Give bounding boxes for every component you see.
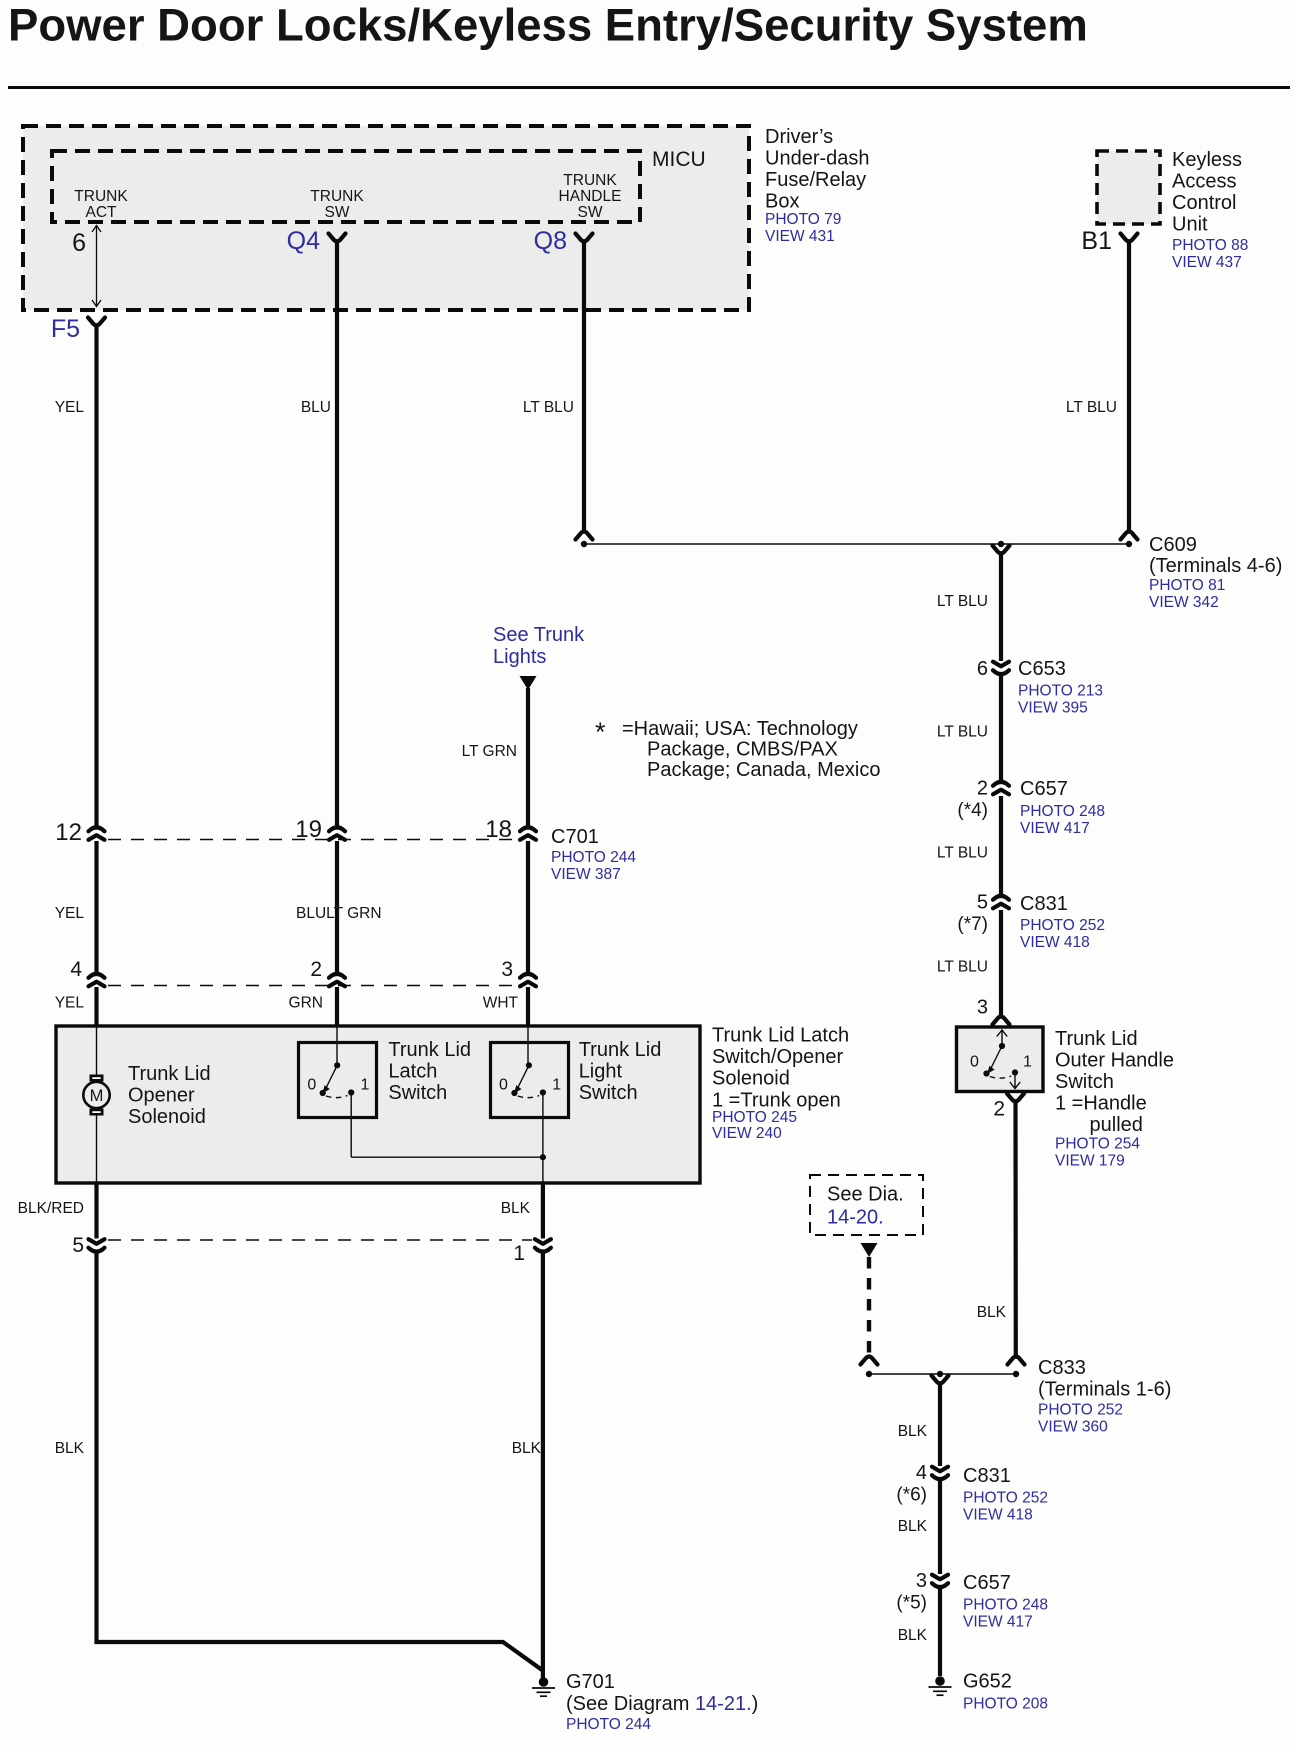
svg-text:(*5): (*5) — [896, 1593, 927, 1614]
row2 connector dashed line — [108, 985, 518, 987]
svg-text:4: 4 — [916, 1462, 927, 1484]
motor M trunk lid opener solenoid — [83, 1026, 210, 1183]
svg-text:Driver’s: Driver’s — [765, 126, 833, 148]
svg-text:Package, CMBS/PAX: Package, CMBS/PAX — [647, 739, 838, 761]
connector C701 dashed line — [108, 839, 518, 841]
svg-text:LT BLU: LT BLU — [937, 959, 988, 976]
svg-text:5: 5 — [977, 892, 988, 914]
svg-text:Under-dash: Under-dash — [765, 148, 870, 170]
svg-text:PHOTO 208: PHOTO 208 — [963, 1696, 1048, 1713]
svg-text:Switch/Opener: Switch/Opener — [712, 1046, 844, 1068]
svg-text:C831: C831 — [1020, 893, 1068, 915]
svg-text:HANDLE: HANDLE — [559, 188, 622, 205]
svg-text:Trunk Lid: Trunk Lid — [388, 1039, 471, 1061]
svg-text:PHOTO 252: PHOTO 252 — [963, 1490, 1048, 1507]
svg-text:(*7): (*7) — [957, 914, 988, 935]
wire BLK C833 to ground G652 — [898, 1383, 940, 1676]
terminal Q8 — [534, 227, 593, 255]
svg-text:VIEW 240: VIEW 240 — [712, 1125, 782, 1142]
svg-text:2: 2 — [977, 778, 988, 800]
svg-text:Unit: Unit — [1172, 214, 1208, 236]
svg-text:4: 4 — [70, 958, 82, 981]
pin TRUNK SW label — [310, 188, 364, 221]
svg-text:Switch: Switch — [388, 1082, 447, 1104]
svg-text:2: 2 — [993, 1098, 1005, 1121]
svg-text:5: 5 — [72, 1234, 84, 1257]
row2 connector pin 3 — [501, 958, 536, 986]
connector C653 label — [1018, 658, 1103, 717]
svg-text:(Terminals 1-6): (Terminals 1-6) — [1038, 1379, 1171, 1401]
node C609 horizontal wire — [584, 541, 1129, 547]
trunk lid outer handle switch box — [957, 1027, 1044, 1092]
svg-text:VIEW 431: VIEW 431 — [765, 228, 835, 245]
svg-text:0: 0 — [307, 1077, 316, 1094]
svg-text:(See Diagram 14-21.): (See Diagram 14-21.) — [566, 1693, 758, 1715]
svg-text:3: 3 — [916, 1570, 927, 1592]
wire W2 BLU Q4 to latch switch — [289, 241, 382, 1026]
svg-text:BLU: BLU — [301, 399, 331, 416]
svg-text:=Hawaii; USA: Technology: =Hawaii; USA: Technology — [622, 718, 858, 740]
Driver's Under-dash Fuse/Relay Box label — [765, 126, 870, 245]
connector C701 pin 19 — [295, 816, 345, 843]
svg-text:Control: Control — [1172, 192, 1236, 214]
MICU outer dashed fuse box — [23, 126, 749, 310]
svg-text:0: 0 — [499, 1077, 508, 1094]
svg-text:19: 19 — [295, 816, 322, 843]
svg-text:Access: Access — [1172, 171, 1236, 193]
svg-text:LT BLU: LT BLU — [937, 593, 988, 610]
svg-text:6: 6 — [977, 658, 988, 680]
pin TRUNK HANDLE SW label — [559, 172, 622, 221]
terminal B1 — [1081, 227, 1137, 255]
svg-text:Trunk Lid: Trunk Lid — [1055, 1028, 1138, 1050]
wire W5 LT GRN trunk lights to light switch — [462, 688, 528, 1026]
ground G652 — [929, 1671, 1049, 1713]
svg-text:Box: Box — [765, 191, 799, 213]
internal wire light 1 down — [542, 1093, 544, 1184]
connector C657 pin 2 — [957, 778, 1009, 822]
svg-text:LT BLU: LT BLU — [523, 399, 574, 416]
svg-text:(*4): (*4) — [957, 800, 988, 821]
svg-text:6: 6 — [72, 229, 86, 257]
svg-text:LT BLU: LT BLU — [1066, 399, 1117, 416]
svg-text:VIEW 417: VIEW 417 — [1020, 820, 1090, 837]
svg-text:See Dia.: See Dia. — [827, 1184, 904, 1206]
label trunk lid outer handle switch — [1055, 1028, 1174, 1170]
svg-text:(Terminals 4-6): (Terminals 4-6) — [1149, 555, 1282, 577]
svg-text:0: 0 — [970, 1054, 979, 1071]
MICU inner dashed box — [52, 148, 706, 222]
row2 connector pin 2 — [310, 958, 345, 986]
wire light BLK to ground — [512, 1253, 543, 1679]
svg-text:F5: F5 — [51, 315, 80, 343]
connector C831 label — [1020, 893, 1105, 951]
svg-text:TRUNK: TRUNK — [563, 172, 617, 189]
connector pin 5 — [72, 1234, 104, 1257]
dashed wire from See Dia arrow — [861, 1243, 878, 1355]
node C833 horizontal wire — [869, 1371, 1016, 1377]
svg-text:PHOTO 248: PHOTO 248 — [963, 1597, 1048, 1614]
See Trunk Lights reference — [493, 624, 585, 690]
trunk lid latch switch — [299, 1026, 472, 1118]
svg-text:YEL: YEL — [55, 995, 85, 1012]
Keyless Access Control Unit dashed box — [1097, 151, 1160, 224]
svg-text:1: 1 — [552, 1077, 561, 1094]
connector C657 label — [1020, 778, 1105, 837]
svg-text:LT GRN: LT GRN — [462, 743, 517, 760]
label trunk lid latch switch/opener solenoid — [712, 1025, 849, 1143]
svg-text:LT BLU: LT BLU — [937, 724, 988, 741]
junction cup below C833 — [932, 1376, 949, 1384]
svg-text:MICU: MICU — [652, 148, 706, 171]
svg-text:Fuse/Relay: Fuse/Relay — [765, 169, 866, 191]
terminal Q4 — [287, 227, 346, 255]
svg-text:VIEW 387: VIEW 387 — [551, 866, 621, 883]
svg-text:YEL: YEL — [55, 905, 85, 922]
svg-text:(*6): (*6) — [896, 1485, 927, 1506]
svg-text:PHOTO 252: PHOTO 252 — [1020, 917, 1105, 934]
svg-text:SW: SW — [325, 204, 350, 221]
svg-text:Solenoid: Solenoid — [712, 1068, 790, 1090]
svg-text:BLK: BLK — [977, 1304, 1007, 1321]
svg-text:PHOTO 252: PHOTO 252 — [1038, 1402, 1123, 1419]
wire W1 YEL F5 to solenoid box — [55, 325, 97, 1026]
svg-text:C657: C657 — [1020, 778, 1068, 800]
svg-text:PHOTO 244: PHOTO 244 — [551, 849, 636, 866]
svg-text:BLK: BLK — [512, 1440, 542, 1457]
svg-text:VIEW 417: VIEW 417 — [963, 1614, 1033, 1631]
wire end flare W4 — [1121, 532, 1138, 548]
svg-text:Opener: Opener — [128, 1085, 195, 1107]
svg-text:BLK: BLK — [898, 1627, 928, 1644]
svg-text:2: 2 — [310, 958, 322, 981]
svg-text:*: * — [595, 717, 606, 747]
wire BLK handle switch to C833 — [977, 1101, 1016, 1355]
connector C833 label — [1038, 1357, 1171, 1436]
svg-text:14-20.: 14-20. — [827, 1207, 884, 1229]
connector C831 pin 5 — [957, 892, 1009, 936]
svg-text:Switch: Switch — [1055, 1071, 1114, 1093]
connector C657 lower label — [963, 1572, 1048, 1631]
connector C831 lower label — [963, 1465, 1048, 1524]
svg-text:PHOTO 248: PHOTO 248 — [1020, 803, 1105, 820]
svg-text:1: 1 — [513, 1242, 525, 1265]
svg-text:3: 3 — [977, 997, 988, 1019]
connector pin 1 — [513, 1239, 551, 1265]
wire W3 LT BLU Q8 to junction line — [523, 241, 584, 530]
connector C831 pin 4 — [896, 1462, 948, 1506]
connector C701 pin 12 — [55, 819, 104, 846]
svg-text:YEL: YEL — [55, 399, 85, 416]
svg-text:Trunk Lid: Trunk Lid — [128, 1063, 211, 1085]
svg-text:G652: G652 — [963, 1671, 1012, 1693]
svg-text:PHOTO 88: PHOTO 88 — [1172, 237, 1248, 254]
wire end flare C833 right — [1008, 1357, 1025, 1378]
svg-text:See Trunk: See Trunk — [493, 624, 585, 646]
svg-text:Lights: Lights — [493, 646, 546, 668]
svg-text:VIEW 360: VIEW 360 — [1038, 1419, 1108, 1436]
svg-text:Q4: Q4 — [287, 227, 320, 255]
svg-text:12: 12 — [55, 819, 82, 846]
pin 6 internal arrow — [72, 225, 101, 307]
svg-text:C831: C831 — [963, 1465, 1011, 1487]
wire W1 BLK to ground — [55, 1253, 544, 1672]
title — [8, 0, 1290, 89]
svg-text:VIEW 418: VIEW 418 — [963, 1507, 1033, 1524]
svg-text:PHOTO 213: PHOTO 213 — [1018, 683, 1103, 700]
svg-text:VIEW 395: VIEW 395 — [1018, 700, 1088, 717]
svg-text:Light: Light — [579, 1061, 623, 1083]
svg-text:pulled: pulled — [1090, 1114, 1143, 1136]
svg-text:1: 1 — [361, 1077, 370, 1094]
svg-text:Switch: Switch — [579, 1082, 638, 1104]
terminal F5 — [51, 315, 105, 343]
svg-text:BLK: BLK — [55, 1440, 85, 1457]
wire end flare W3 — [576, 532, 593, 548]
svg-text:BLK: BLK — [898, 1423, 928, 1440]
svg-text:BLULT GRN: BLULT GRN — [296, 905, 382, 922]
svg-text:PHOTO 245: PHOTO 245 — [712, 1109, 797, 1126]
connector C609 label — [1149, 534, 1282, 611]
connector C701 pin 18 — [485, 816, 536, 843]
internal wire latch 1 to light wire — [351, 1093, 546, 1161]
svg-text:VIEW 179: VIEW 179 — [1055, 1153, 1125, 1170]
svg-text:M: M — [90, 1087, 104, 1105]
svg-text:PHOTO 81: PHOTO 81 — [1149, 577, 1225, 594]
bottom connector dashed line — [108, 1239, 532, 1241]
svg-text:B1: B1 — [1081, 227, 1112, 255]
wire W6 LT BLU right column — [937, 553, 1001, 1015]
svg-text:VIEW 418: VIEW 418 — [1020, 934, 1090, 951]
svg-text:Outer Handle: Outer Handle — [1055, 1050, 1174, 1072]
svg-text:3: 3 — [501, 958, 513, 981]
node junction cup right column — [993, 546, 1010, 554]
svg-text:C657: C657 — [963, 1572, 1011, 1594]
svg-text:1 =Handle: 1 =Handle — [1055, 1093, 1147, 1115]
svg-text:C701: C701 — [551, 826, 599, 848]
svg-text:PHOTO 244: PHOTO 244 — [566, 1716, 651, 1733]
svg-text:PHOTO 254: PHOTO 254 — [1055, 1136, 1140, 1153]
svg-text:WHT: WHT — [483, 995, 519, 1012]
svg-text:Solenoid: Solenoid — [128, 1106, 206, 1128]
svg-text:Latch: Latch — [388, 1061, 437, 1083]
row2 connector pin 4 — [70, 958, 104, 986]
solenoid/switch assembly box — [56, 1026, 700, 1183]
pin TRUNK ACT label — [74, 188, 128, 221]
svg-text:GRN: GRN — [289, 995, 323, 1012]
svg-text:LT BLU: LT BLU — [937, 845, 988, 862]
terminal 2 cup below handle switch — [993, 1094, 1024, 1121]
svg-text:BLK: BLK — [898, 1518, 928, 1535]
wire end flare C833 left — [861, 1357, 878, 1378]
svg-text:Keyless: Keyless — [1172, 149, 1242, 171]
svg-text:TRUNK: TRUNK — [310, 188, 364, 205]
svg-text:C609: C609 — [1149, 534, 1197, 556]
svg-text:BLK/RED: BLK/RED — [18, 1200, 84, 1217]
svg-text:Package; Canada, Mexico: Package; Canada, Mexico — [647, 759, 880, 781]
connector C653 pin 6 — [977, 658, 1009, 680]
svg-text:C833: C833 — [1038, 1357, 1086, 1379]
svg-text:TRUNK: TRUNK — [74, 188, 128, 205]
ground G701 — [532, 1671, 758, 1733]
svg-text:VIEW 437: VIEW 437 — [1172, 254, 1242, 271]
connector C657 pin 3 — [896, 1570, 948, 1614]
svg-text:C653: C653 — [1018, 658, 1066, 680]
svg-text:BLK: BLK — [501, 1200, 531, 1217]
svg-text:VIEW 342: VIEW 342 — [1149, 594, 1219, 611]
wire W4 LT BLU B1 down — [1066, 241, 1129, 530]
Keyless Access Control Unit label — [1172, 149, 1248, 271]
svg-text:Trunk Lid: Trunk Lid — [579, 1039, 662, 1061]
wire W1 lower BLK/RED — [18, 1183, 97, 1239]
note Hawaii/USA — [595, 717, 880, 781]
connector C701 label — [551, 826, 636, 883]
svg-text:ACT: ACT — [86, 204, 118, 221]
wire end flare into handle switch pin 3 — [977, 997, 1010, 1025]
svg-text:Power Door Locks/Keyless Entry: Power Door Locks/Keyless Entry/Security … — [8, 0, 1088, 51]
svg-text:G701: G701 — [566, 1671, 615, 1693]
trunk lid light switch — [491, 1026, 662, 1118]
See Dia. 14-20 dashed box — [810, 1175, 923, 1235]
svg-text:SW: SW — [578, 204, 603, 221]
wire light switch lower BLK — [501, 1183, 543, 1239]
svg-text:18: 18 — [485, 816, 512, 843]
svg-text:Trunk Lid Latch: Trunk Lid Latch — [712, 1025, 849, 1047]
svg-text:Q8: Q8 — [534, 227, 567, 255]
svg-text:1: 1 — [1023, 1054, 1032, 1071]
svg-text:PHOTO 79: PHOTO 79 — [765, 211, 841, 228]
